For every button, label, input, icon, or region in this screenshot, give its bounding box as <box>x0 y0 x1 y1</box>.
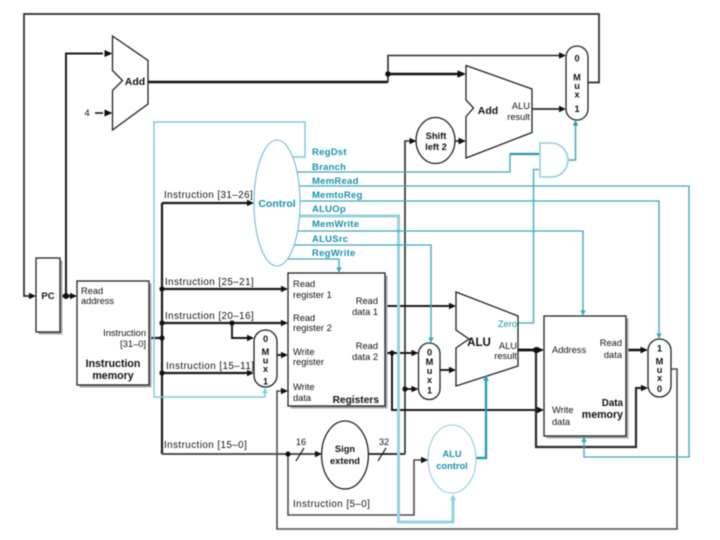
arrow MemRead into data memory bottom <box>581 437 586 443</box>
wire sign extend riser to shift left 2 <box>405 141 413 454</box>
wire MemtoReg control to mux select <box>300 201 659 336</box>
arrow into data memory address <box>537 347 545 354</box>
arrow into PCSrc mux 0 <box>559 52 566 58</box>
svg-text:Instruction [5–0]: Instruction [5–0] <box>293 499 370 510</box>
wire data memory read data to MemtoReg mux input 1 <box>626 349 645 352</box>
svg-text:Instruction [15–11]: Instruction [15–11] <box>166 361 254 372</box>
wire Branch thick segment into AND gate <box>510 153 539 155</box>
wire ALU result to data memory address <box>518 349 541 352</box>
mux RegDst <box>254 330 277 387</box>
svg-text:[31–0]: [31–0] <box>120 339 146 349</box>
svg-text:Zero: Zero <box>498 319 517 329</box>
svg-text:Read: Read <box>293 313 315 323</box>
mux MemtoReg <box>648 339 671 397</box>
svg-text:x: x <box>427 375 433 385</box>
svg-text:memory: memory <box>582 409 623 421</box>
arrow ALUSrc into mux select <box>428 337 433 343</box>
wire ALU control output to ALU <box>476 377 486 458</box>
wire Instruction[25-21] to read register 1 <box>162 288 285 290</box>
svg-text:control: control <box>436 461 468 471</box>
svg-text:Write: Write <box>293 347 315 357</box>
ALU control unit <box>428 425 476 493</box>
svg-text:Registers: Registers <box>333 395 380 406</box>
adder Add (branch target) <box>466 66 532 159</box>
arrow into RegDst mux 0 <box>247 335 254 341</box>
wire RegDst mux output to write register <box>277 354 285 356</box>
svg-text:ALU: ALU <box>512 101 530 111</box>
wire Instruction[20-16] to read register 2 <box>162 322 285 324</box>
arrow into branch adder bottom <box>459 138 467 145</box>
wire ALU result bypass to MemtoReg mux input 0 <box>536 350 645 447</box>
svg-text:Add: Add <box>478 105 498 117</box>
arrow into MemtoReg mux 0 <box>641 385 648 391</box>
svg-text:result: result <box>494 351 517 361</box>
wire ALUSrc control to mux select <box>294 245 431 340</box>
wire PC+4 riser to branch mux input 0 <box>388 56 563 83</box>
wire ALUSrc mux output to ALU <box>440 369 453 371</box>
svg-text:Control: Control <box>258 198 295 210</box>
arrow RegDst into mux select <box>262 388 267 394</box>
node sign extend riser junction <box>402 386 407 391</box>
svg-text:data: data <box>604 350 623 360</box>
wire Instruction[5-0] to ALU control <box>288 454 425 515</box>
svg-text:ALUSrc: ALUSrc <box>312 234 348 245</box>
arrow AND output into PCSrc mux select <box>573 120 578 126</box>
svg-text:Instruction [31–26]: Instruction [31–26] <box>164 190 253 201</box>
svg-text:data: data <box>552 417 571 427</box>
svg-text:register 1: register 1 <box>293 290 332 300</box>
svg-text:data 1: data 1 <box>352 307 378 317</box>
svg-text:ALU: ALU <box>499 341 517 351</box>
svg-text:16: 16 <box>296 437 306 447</box>
svg-text:address: address <box>81 296 114 306</box>
arrow ALU control output into ALU <box>483 375 489 381</box>
arrow into data memory write data <box>537 407 544 413</box>
wire write-back from MemtoReg mux to registers write data <box>277 369 677 529</box>
svg-text:data 2: data 2 <box>352 352 378 362</box>
svg-text:ALU: ALU <box>467 337 491 349</box>
wire PC-source mux output feedback loop to PC <box>24 14 599 296</box>
svg-text:MemRead: MemRead <box>312 176 359 187</box>
arrow into write register <box>281 352 288 358</box>
svg-text:x: x <box>657 373 663 383</box>
wire Instruction[31-26] to Control <box>162 202 251 204</box>
arrow ALUOp into ALU control <box>450 494 456 500</box>
svg-text:1: 1 <box>263 377 268 387</box>
wire read data 1 to ALU <box>385 305 453 307</box>
wire Branch control to AND gate <box>297 154 539 172</box>
svg-text:Branch: Branch <box>312 162 346 173</box>
bit-width slash 32 <box>378 448 386 461</box>
arrow MemtoReg into mux select <box>656 333 661 339</box>
arrow into ALU input 1 <box>449 303 456 309</box>
svg-text:Write: Write <box>552 405 574 415</box>
arrow into write data of registers <box>281 388 288 394</box>
wire MemRead control to data memory <box>299 186 689 457</box>
wire MemWrite control to data memory <box>298 231 583 313</box>
wire PC output to instruction memory read address <box>60 295 75 297</box>
arrow into RegDst mux 1 <box>247 370 254 376</box>
wire instruction memory output to bus junction <box>149 337 162 339</box>
svg-text:x: x <box>263 364 269 374</box>
arrow MemWrite into data memory top <box>580 310 585 316</box>
registers <box>288 273 388 409</box>
wire sign extend tap to ALUSrc mux input 1 <box>405 388 416 390</box>
svg-text:Read: Read <box>356 341 378 351</box>
svg-text:Address: Address <box>552 345 586 355</box>
svg-text:32: 32 <box>379 437 389 447</box>
arrow into ALU input 2 <box>449 367 456 373</box>
svg-text:PC: PC <box>41 291 54 302</box>
control unit ellipse <box>254 140 300 266</box>
svg-text:Instruction [25–21]: Instruction [25–21] <box>165 277 254 288</box>
sign extend unit <box>322 421 369 489</box>
wire PC output up to Add adder input <box>66 54 103 297</box>
svg-text:0: 0 <box>263 334 268 344</box>
node instruction 15-0 / 5-0 junction <box>285 451 290 456</box>
data memory <box>544 316 629 439</box>
svg-text:Instruction [15–0]: Instruction [15–0] <box>164 440 247 451</box>
arrow into Control <box>247 200 254 206</box>
svg-text:ALU: ALU <box>442 449 461 459</box>
node read data 2 junction <box>389 350 394 355</box>
arrow into ALUSrc mux 1 <box>412 386 419 392</box>
wire RegDst control routed to RegDst mux select <box>154 122 305 397</box>
wire Zero flag to AND gate <box>518 170 539 324</box>
svg-text:4: 4 <box>84 108 89 119</box>
svg-text:MemWrite: MemWrite <box>312 219 359 230</box>
svg-text:Instruction: Instruction <box>86 358 141 370</box>
svg-text:x: x <box>574 90 580 100</box>
ALU <box>456 292 518 386</box>
svg-text:0: 0 <box>427 348 432 358</box>
wire PC+4 from Add output <box>148 81 388 84</box>
wire ALUOp control to ALU control unit <box>299 216 453 522</box>
node ALU result junction <box>533 347 539 353</box>
svg-text:ALUOp: ALUOp <box>312 204 346 215</box>
arrow into sign extend <box>315 451 322 457</box>
svg-text:extend: extend <box>330 456 360 466</box>
svg-text:register 2: register 2 <box>293 323 332 333</box>
node instruction bus tap 25-21 <box>159 286 164 291</box>
wire PC+4 into branch adder top input <box>388 73 463 76</box>
instruction memory <box>77 281 152 388</box>
svg-text:result: result <box>507 112 530 122</box>
arrow into Add top <box>105 50 113 57</box>
arrow into read register 1 <box>281 286 288 292</box>
wire RegWrite control to registers <box>288 259 339 270</box>
svg-text:left 2: left 2 <box>425 142 447 152</box>
mux PCSrc <box>566 46 588 120</box>
node PC+4 junction <box>385 71 391 77</box>
svg-text:RegWrite: RegWrite <box>312 248 356 259</box>
wire branch adder result to mux input 1 <box>532 108 563 110</box>
arrow 4 into Add <box>105 110 113 117</box>
wire Instruction[15-11] to RegDst mux input 1 <box>162 372 251 374</box>
svg-text:1: 1 <box>427 386 432 396</box>
adder Add (PC+4) <box>113 36 149 130</box>
arrow into read register 2 <box>281 320 288 326</box>
PC register <box>36 258 63 335</box>
svg-text:Add: Add <box>125 76 145 88</box>
shift left 2 unit <box>416 118 455 164</box>
wire Instruction[20-16] branch to RegDst mux input 0 <box>232 323 251 338</box>
svg-text:Shift: Shift <box>426 131 447 141</box>
wire constant 4 into Add adder <box>95 112 103 114</box>
arrow into PCSrc mux 1 <box>559 106 566 112</box>
svg-text:Instruction [20–16]: Instruction [20–16] <box>165 311 254 322</box>
wire Instruction[15-0] to sign extend <box>162 453 319 455</box>
mux ALUSrc <box>419 343 441 400</box>
node instruction bus tap 15-11 <box>159 370 164 375</box>
svg-text:Read: Read <box>600 338 622 348</box>
svg-text:Read: Read <box>293 279 315 289</box>
arrow into PC <box>29 293 36 299</box>
wire instruction bus vertical <box>161 203 163 454</box>
wire AND gate output to PCSrc mux select <box>568 123 576 160</box>
node instruction 20-16 branch junction <box>229 320 234 325</box>
arrow into MemtoReg mux 1 <box>641 347 649 354</box>
svg-text:Data: Data <box>602 398 624 409</box>
arrow into branch adder top <box>458 70 467 78</box>
wire read data 2 down to data memory write data <box>392 353 541 410</box>
wire sign extend output <box>368 453 405 455</box>
node instruction bus input junction <box>159 335 164 340</box>
svg-text:Read: Read <box>81 286 103 296</box>
arrow into read address <box>70 293 77 299</box>
svg-text:Sign: Sign <box>335 444 355 454</box>
svg-text:data: data <box>293 393 312 403</box>
svg-text:register: register <box>293 357 324 367</box>
node PC output junction <box>63 293 69 299</box>
arrow into ALUSrc mux 0 <box>412 350 419 356</box>
node instruction bus tap 20-16 <box>159 320 164 325</box>
arrow into shift left 2 <box>410 138 417 144</box>
svg-text:MemtoReg: MemtoReg <box>312 190 363 201</box>
svg-text:memory: memory <box>92 370 133 382</box>
svg-text:Instruction: Instruction <box>103 328 146 338</box>
wire shift left 2 output to branch adder <box>455 140 463 142</box>
svg-text:0: 0 <box>657 384 662 394</box>
AND gate branch <box>540 143 568 177</box>
wire read data 2 to ALUSrc mux input 0 <box>385 352 416 354</box>
svg-text:RegDst: RegDst <box>312 147 347 158</box>
svg-text:1: 1 <box>574 104 579 114</box>
svg-text:0: 0 <box>574 54 579 64</box>
svg-text:1: 1 <box>657 344 662 354</box>
svg-text:Read: Read <box>356 296 378 306</box>
svg-text:Write: Write <box>293 382 315 392</box>
bit-width slash 16 <box>296 448 304 461</box>
arrow RegWrite into registers top <box>336 267 341 273</box>
arrow into ALU control from instruction <box>421 457 428 463</box>
